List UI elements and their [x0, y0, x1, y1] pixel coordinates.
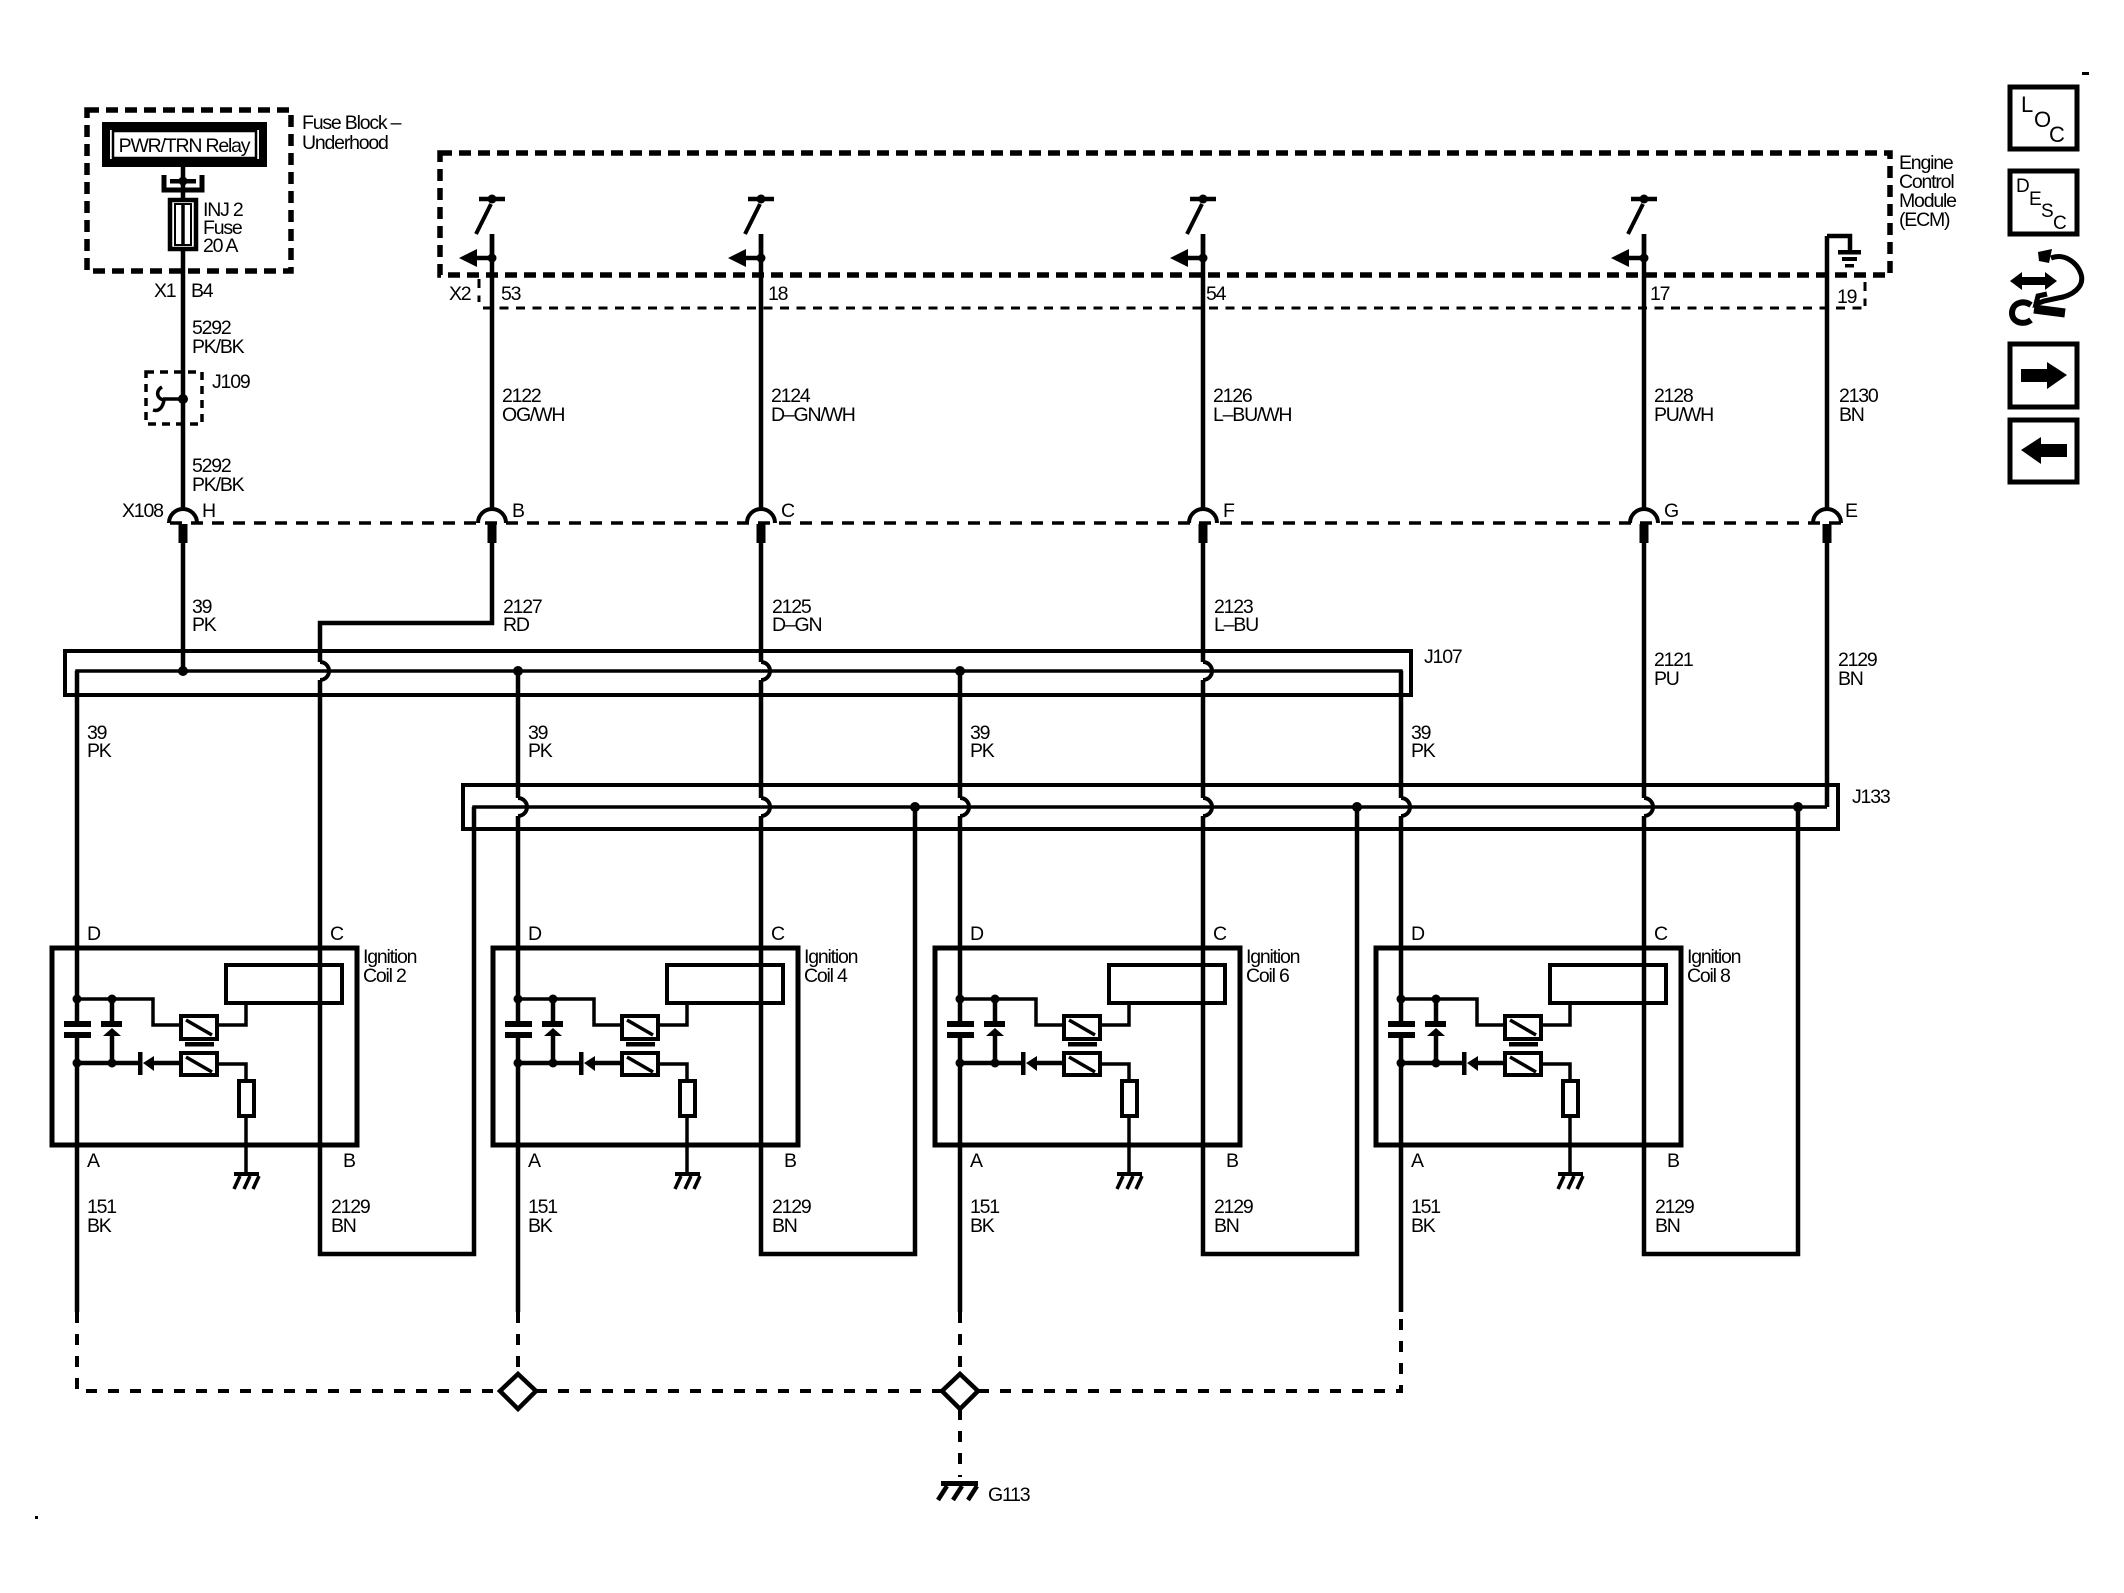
label 39 PK column 87	[87, 722, 112, 762]
coil case ground	[1558, 1172, 1583, 1189]
coil 4 D feed internal wire	[516, 948, 521, 999]
svg-text:BN: BN	[1838, 668, 1863, 690]
wire 39 PK to coil 2 D	[75, 671, 80, 948]
svg-text:Coil 8: Coil 8	[1687, 965, 1730, 987]
capacitor	[64, 999, 91, 1063]
dashed ground line right	[978, 1312, 1401, 1391]
coil case ground	[234, 1172, 259, 1189]
ECM low-side driver pin 53	[459, 195, 505, 268]
label 2127 RD	[503, 596, 542, 636]
label 2129 BN	[331, 1196, 370, 1237]
coil 4 C-B through wire	[759, 948, 764, 1145]
connector X108 terminal E	[1813, 500, 1858, 543]
internal low wire	[518, 1061, 579, 1066]
svg-text:Coil 4: Coil 4	[804, 965, 848, 987]
label Engine Control Module (ECM)	[1899, 152, 1956, 231]
svg-text:D–GN: D–GN	[772, 614, 821, 636]
secondary coil winding	[667, 965, 783, 1003]
wire 2125 D-GN hop over J107	[761, 662, 770, 680]
svg-text:PK: PK	[87, 740, 112, 762]
ECM low-side driver pin 17	[1611, 195, 1657, 268]
label Ignition Coil 8	[1687, 946, 1741, 987]
label X1 B4	[154, 280, 214, 302]
wire 2126 L-BU/WH pin 54 to X108 F	[1201, 234, 1206, 509]
ignition coil 8 box	[1376, 948, 1681, 1145]
svg-text:PK: PK	[1411, 740, 1436, 762]
svg-text:Underhood: Underhood	[302, 132, 388, 154]
junction dot	[514, 995, 523, 1004]
ignition coil 2	[52, 807, 474, 1312]
svg-text:D: D	[87, 923, 101, 945]
svg-text:19: 19	[1837, 286, 1857, 308]
connector X108 terminal H	[169, 500, 215, 543]
resistor	[680, 1081, 695, 1116]
label 39 PK column 970	[970, 722, 995, 762]
svg-text:B: B	[1226, 1150, 1238, 1172]
ignition coil 2 box	[52, 948, 357, 1145]
transformer core	[626, 1042, 655, 1047]
X2 connector labels row	[449, 283, 1857, 308]
wire 2122 OG/WH pin 53 to X108 B	[490, 234, 495, 509]
svg-text:S: S	[2041, 201, 2053, 222]
label 151 BK	[970, 1196, 999, 1237]
wire 39 PK coil 4 hop over J133	[518, 798, 527, 816]
label 2125 D-GN	[772, 596, 821, 636]
transformer primary driver winding	[1505, 1016, 1541, 1039]
svg-text:C: C	[2049, 122, 2065, 147]
wire 2125 D-GN X108 C down	[759, 543, 764, 662]
transformer secondary driver winding	[1505, 1053, 1541, 1075]
dashed ground wire 151 BK left	[77, 1312, 500, 1391]
label 2129 BN	[1655, 1196, 1694, 1237]
svg-text:B: B	[1667, 1150, 1679, 1172]
dashed ground wire coil 4	[516, 1312, 520, 1374]
diode	[138, 1052, 181, 1075]
svg-text:OG/WH: OG/WH	[502, 404, 564, 426]
label 2129 BN right	[1838, 649, 1877, 690]
zener diode	[1425, 999, 1446, 1063]
svg-text:L–BU/WH: L–BU/WH	[1213, 404, 1291, 426]
diode	[1021, 1052, 1064, 1075]
junction dot J133 coil 6 return	[1352, 802, 1362, 812]
connector X108 terminal C	[747, 500, 795, 543]
diode	[1462, 1052, 1505, 1075]
internal low wire	[960, 1061, 1021, 1066]
wire fuse to X1 B4	[181, 249, 186, 372]
svg-text:C: C	[781, 500, 795, 522]
svg-text:J109: J109	[212, 371, 250, 393]
wire winding to resistor	[1541, 1064, 1570, 1081]
junction dot	[991, 1059, 1000, 1068]
wire 2127 RD J107 to coil 2 C	[318, 680, 323, 948]
svg-text:BN: BN	[1655, 1215, 1680, 1237]
wire resistor to case ground	[685, 1116, 689, 1172]
zener diode	[984, 999, 1005, 1063]
label 2130 BN	[1839, 385, 1879, 426]
wire 151 BK coil 8 A down	[1399, 1063, 1404, 1312]
coil 6 C-B through wire	[1201, 948, 1206, 1145]
svg-text:BN: BN	[331, 1215, 356, 1237]
wire 2121 PU X108 G down	[1642, 543, 1647, 798]
wire 2127 RD hop over J107	[320, 662, 329, 680]
junction dot	[956, 1059, 965, 1068]
svg-text:L–BU: L–BU	[1214, 614, 1258, 636]
diode	[579, 1052, 622, 1075]
capacitor	[947, 999, 974, 1063]
splice J109	[146, 372, 202, 509]
junction dot	[549, 1059, 558, 1068]
svg-text:B: B	[512, 500, 524, 522]
icon arrow left	[2010, 420, 2077, 482]
wire 2125 D-GN hop over J133	[761, 798, 770, 816]
wire 2123 L-BU X108 F down	[1201, 543, 1206, 662]
zener diode	[542, 999, 563, 1063]
svg-text:X108: X108	[122, 500, 163, 522]
svg-text:Fuse Block –: Fuse Block –	[302, 112, 402, 134]
wire 2123 L-BU hop over J133	[1203, 798, 1212, 816]
svg-text:17: 17	[1650, 283, 1670, 305]
svg-text:X2: X2	[449, 283, 471, 305]
wire 39 PK to coil 8 D	[1399, 671, 1404, 798]
wire 2129 BN coil 2 B return loop	[320, 807, 474, 1254]
svg-text:D: D	[1411, 923, 1425, 945]
connector X108 terminal F	[1189, 500, 1235, 543]
transformer secondary driver winding	[1064, 1053, 1100, 1075]
label 151 BK	[528, 1196, 557, 1237]
wire 39 PK J133 to coil 6 D	[958, 816, 963, 948]
wire winding to secondary coil	[658, 1003, 687, 1025]
wire 39 PK to coil 6 D	[958, 671, 963, 798]
svg-text:PU: PU	[1654, 668, 1679, 690]
label 39 PK column 1411	[1411, 722, 1436, 762]
svg-text:A: A	[87, 1150, 100, 1172]
wire 2123 L-BU hop over J107	[1203, 662, 1212, 680]
wire winding to resistor	[217, 1064, 246, 1081]
svg-text:PK: PK	[528, 740, 553, 762]
transformer core	[1068, 1042, 1097, 1047]
label 2129 BN	[772, 1196, 811, 1237]
wire resistor to case ground	[1127, 1116, 1131, 1172]
svg-text:D: D	[970, 923, 984, 945]
svg-text:B: B	[784, 1150, 796, 1172]
svg-text:G: G	[1664, 500, 1678, 522]
wire 2127 RD X108 B jog to coil 2 C	[320, 543, 492, 662]
connector X108 terminal G	[1630, 500, 1678, 543]
secondary coil winding	[1550, 965, 1666, 1003]
svg-text:PK/BK: PK/BK	[192, 474, 245, 496]
junction dot	[108, 995, 117, 1004]
svg-text:54: 54	[1206, 283, 1227, 305]
wire winding to secondary coil	[1100, 1003, 1129, 1025]
transformer primary driver winding	[1064, 1016, 1100, 1039]
junction dot	[991, 995, 1000, 1004]
junction dot J107 to coil 6	[955, 666, 965, 676]
icon arrow right	[2010, 344, 2077, 407]
wire 39 PK J133 to coil 4 D	[516, 816, 521, 948]
svg-text:Coil 2: Coil 2	[363, 965, 406, 987]
svg-text:C: C	[330, 923, 344, 945]
svg-text:D: D	[2016, 176, 2029, 197]
svg-text:L: L	[2021, 92, 2033, 117]
coil 8 D feed internal wire	[1399, 948, 1404, 999]
junction dot	[1397, 1059, 1406, 1068]
wire 2123 L-BU J107 to J133	[1201, 680, 1206, 798]
svg-text:BN: BN	[1214, 1215, 1239, 1237]
ground G113	[938, 1481, 978, 1500]
icon LOC	[2010, 87, 2077, 149]
label Ignition Coil 6	[1246, 946, 1300, 987]
wire relay to fuse holder	[181, 163, 186, 179]
svg-text:PU/WH: PU/WH	[1654, 404, 1713, 426]
secondary coil winding	[1109, 965, 1225, 1003]
X2 connector thin dashed line	[483, 307, 1865, 310]
fuse block underhood dashed box	[87, 110, 291, 271]
svg-text:BK: BK	[528, 1215, 553, 1237]
wire 151 BK coil 6 A down	[958, 1063, 963, 1312]
svg-text:RD: RD	[503, 614, 530, 636]
svg-text:J107: J107	[1424, 646, 1462, 668]
transformer core	[185, 1042, 214, 1047]
svg-text:A: A	[970, 1150, 983, 1172]
svg-text:BN: BN	[1839, 404, 1864, 426]
label 5292 PK/BK upper	[192, 317, 245, 358]
coil case ground	[675, 1172, 700, 1189]
svg-text:C: C	[2053, 213, 2066, 234]
wire 151 BK coil 2 A down	[75, 1063, 80, 1312]
resistor	[1563, 1081, 1578, 1116]
dashed ground wire coil 6	[958, 1312, 962, 1374]
transformer secondary driver winding	[181, 1053, 217, 1075]
coil 6 D feed internal wire	[958, 948, 963, 999]
svg-text:E: E	[2029, 189, 2041, 210]
junction dot	[73, 995, 82, 1004]
svg-text:B: B	[343, 1150, 355, 1172]
svg-text:D: D	[528, 923, 542, 945]
svg-text:20 A: 20 A	[203, 235, 238, 257]
wire 2129 BN coil 4 B return loop	[761, 807, 915, 1254]
splice pack J133	[463, 785, 1838, 829]
wire winding to secondary coil	[1541, 1003, 1570, 1025]
wire 39 PK to coil 4 D	[516, 671, 521, 798]
transformer primary driver winding	[622, 1016, 658, 1039]
svg-text:F: F	[1223, 500, 1235, 522]
wire 151 BK coil 4 A down	[516, 1063, 521, 1312]
label 2121 PU	[1654, 649, 1693, 690]
svg-text:PK: PK	[192, 614, 217, 636]
tiny dash mark top right	[2082, 72, 2089, 75]
svg-text:A: A	[1411, 1150, 1424, 1172]
junction dot	[1432, 1059, 1441, 1068]
internal wire to primary winding	[1401, 999, 1505, 1025]
wire 2121 PU hop over J133	[1644, 798, 1653, 816]
capacitor	[505, 999, 532, 1063]
junction dot	[1397, 995, 1406, 1004]
label 2129 BN	[1214, 1196, 1253, 1237]
resistor	[239, 1081, 254, 1116]
svg-text:H: H	[202, 500, 215, 522]
ignition coil 8	[1376, 807, 1798, 1312]
junction dot	[108, 1059, 117, 1068]
label 151 BK	[1411, 1196, 1440, 1237]
internal wire to primary winding	[960, 999, 1064, 1025]
capacitor	[1388, 999, 1415, 1063]
wire 39 PK coil 8 hop over J133	[1401, 798, 1410, 816]
svg-text:18: 18	[768, 283, 788, 305]
svg-text:X1: X1	[154, 280, 176, 302]
label 39 PK	[192, 596, 217, 636]
svg-text:BK: BK	[87, 1215, 112, 1237]
junction dot J107 to coil 4	[513, 666, 523, 676]
junction dot J107 39 PK feed	[178, 666, 188, 676]
ignition coil 6 box	[935, 948, 1240, 1145]
wire 2130 BN pin 19 to X108 E	[1825, 236, 1830, 509]
label 2128 PU/WH	[1654, 385, 1713, 426]
label 2124 D-GN/WH	[771, 385, 855, 426]
icon wrench arrows	[2010, 249, 2082, 323]
PWR/TRN Relay	[106, 126, 263, 163]
svg-text:PWR/TRN Relay: PWR/TRN Relay	[119, 135, 251, 157]
wire 2128 PU/WH pin 17 to X108 G	[1642, 234, 1647, 509]
svg-text:J133: J133	[1852, 786, 1890, 808]
internal wire to primary winding	[77, 999, 181, 1025]
label 151 BK	[87, 1196, 116, 1237]
coil case ground	[1117, 1172, 1142, 1189]
svg-text:53: 53	[501, 283, 521, 305]
secondary coil winding	[226, 965, 342, 1003]
svg-text:PK: PK	[970, 740, 995, 762]
resistor	[1122, 1081, 1137, 1116]
svg-text:BK: BK	[970, 1215, 995, 1237]
transformer secondary driver winding	[622, 1053, 658, 1075]
internal wire to primary winding	[518, 999, 622, 1025]
splice diamond left	[500, 1374, 536, 1409]
Engine Control Module ECM dashed box	[440, 153, 1890, 275]
label INJ 2 Fuse 20 A	[203, 199, 243, 257]
junction dot J133 coil 4 return	[910, 802, 920, 812]
X2 label separator dashes	[478, 279, 481, 302]
wire 2121 PU J133 to coil 8 C	[1642, 816, 1647, 948]
svg-text:A: A	[528, 1150, 541, 1172]
ignition coil 6	[935, 807, 1357, 1312]
ECM low-side driver pin 18	[728, 195, 774, 268]
speck mark bottom left	[35, 1516, 38, 1519]
wire resistor to case ground	[1568, 1116, 1572, 1172]
junction dot	[73, 1059, 82, 1068]
wire 2123 L-BU J133 to coil 6 C	[1201, 816, 1206, 948]
svg-text:B4: B4	[191, 280, 214, 302]
label 2126 L-BU/WH	[1213, 385, 1291, 426]
dashed wire diamond to G113	[958, 1409, 962, 1477]
wire resistor to case ground	[244, 1116, 248, 1172]
svg-text:D–GN/WH: D–GN/WH	[771, 404, 855, 426]
label Fuse Block - Underhood	[302, 112, 402, 154]
dashed ground line middle	[536, 1389, 942, 1393]
splice pack J107	[65, 651, 1411, 695]
label Ignition Coil 2	[363, 946, 417, 987]
svg-text:C: C	[1654, 923, 1668, 945]
junction dot	[549, 995, 558, 1004]
wire 2129 BN coil 6 B return loop	[1203, 807, 1357, 1254]
svg-text:C: C	[1213, 923, 1227, 945]
coil 2 D feed internal wire	[75, 948, 80, 999]
wire 39 PK X108 H to J107	[181, 543, 186, 671]
ignition coil 4	[493, 807, 915, 1312]
wire 39 PK J133 to coil 8 D	[1399, 816, 1404, 948]
ignition coil 4 box	[493, 948, 798, 1145]
transformer core	[1509, 1042, 1538, 1047]
icon DESC	[2010, 171, 2077, 234]
zener diode	[101, 999, 122, 1063]
label 2122 OG/WH	[502, 385, 564, 426]
wire winding to secondary coil	[217, 1003, 246, 1025]
connector X108 terminal B	[478, 500, 524, 543]
coil 8 C-B through wire	[1642, 948, 1647, 1145]
label 39 PK column 528	[528, 722, 553, 762]
svg-text:BK: BK	[1411, 1215, 1436, 1237]
wire 2125 D-GN J133 to coil 4 C	[759, 816, 764, 948]
junction dot	[956, 995, 965, 1004]
internal low wire	[1401, 1061, 1462, 1066]
wire 2125 D-GN J107 to J133	[759, 680, 764, 798]
svg-text:E: E	[1845, 500, 1858, 522]
wire winding to resistor	[1100, 1064, 1129, 1081]
svg-text:(ECM): (ECM)	[1899, 209, 1950, 231]
pin 19 separator dashes	[1864, 282, 1867, 306]
svg-text:PK/BK: PK/BK	[192, 336, 245, 358]
svg-text:Coil 6: Coil 6	[1246, 965, 1289, 987]
transformer primary driver winding	[181, 1016, 217, 1039]
fuse INJ 2 20 A	[170, 200, 196, 249]
wire winding to resistor	[658, 1064, 687, 1081]
wire 2124 D-GN/WH pin 18 to X108 C	[759, 234, 764, 509]
svg-text:G113: G113	[988, 1484, 1030, 1506]
ECM internal ground pin 19	[1827, 236, 1861, 268]
wire 2129 BN X108 E to J133	[1825, 543, 1830, 807]
splice diamond right	[942, 1374, 978, 1409]
internal low wire	[77, 1061, 138, 1066]
label 2123 L-BU	[1214, 596, 1258, 636]
junction dot	[1432, 995, 1441, 1004]
connector X108 dashed line	[170, 521, 1841, 525]
label 5292 PK/BK lower	[192, 455, 245, 496]
label Ignition Coil 4	[804, 946, 858, 987]
junction dot	[514, 1059, 523, 1068]
svg-text:C: C	[771, 923, 785, 945]
wire 2129 BN coil 8 B return loop	[1644, 807, 1798, 1254]
ECM low-side driver pin 54	[1170, 195, 1216, 268]
coil 2 C-B through wire	[318, 948, 323, 1145]
svg-text:BN: BN	[772, 1215, 797, 1237]
junction dot J133 coil 8 return	[1793, 802, 1803, 812]
wire holder to fuse	[181, 183, 186, 202]
fuse holder bracket	[164, 175, 202, 190]
wire 39 PK coil 6 hop over J133	[960, 798, 969, 816]
